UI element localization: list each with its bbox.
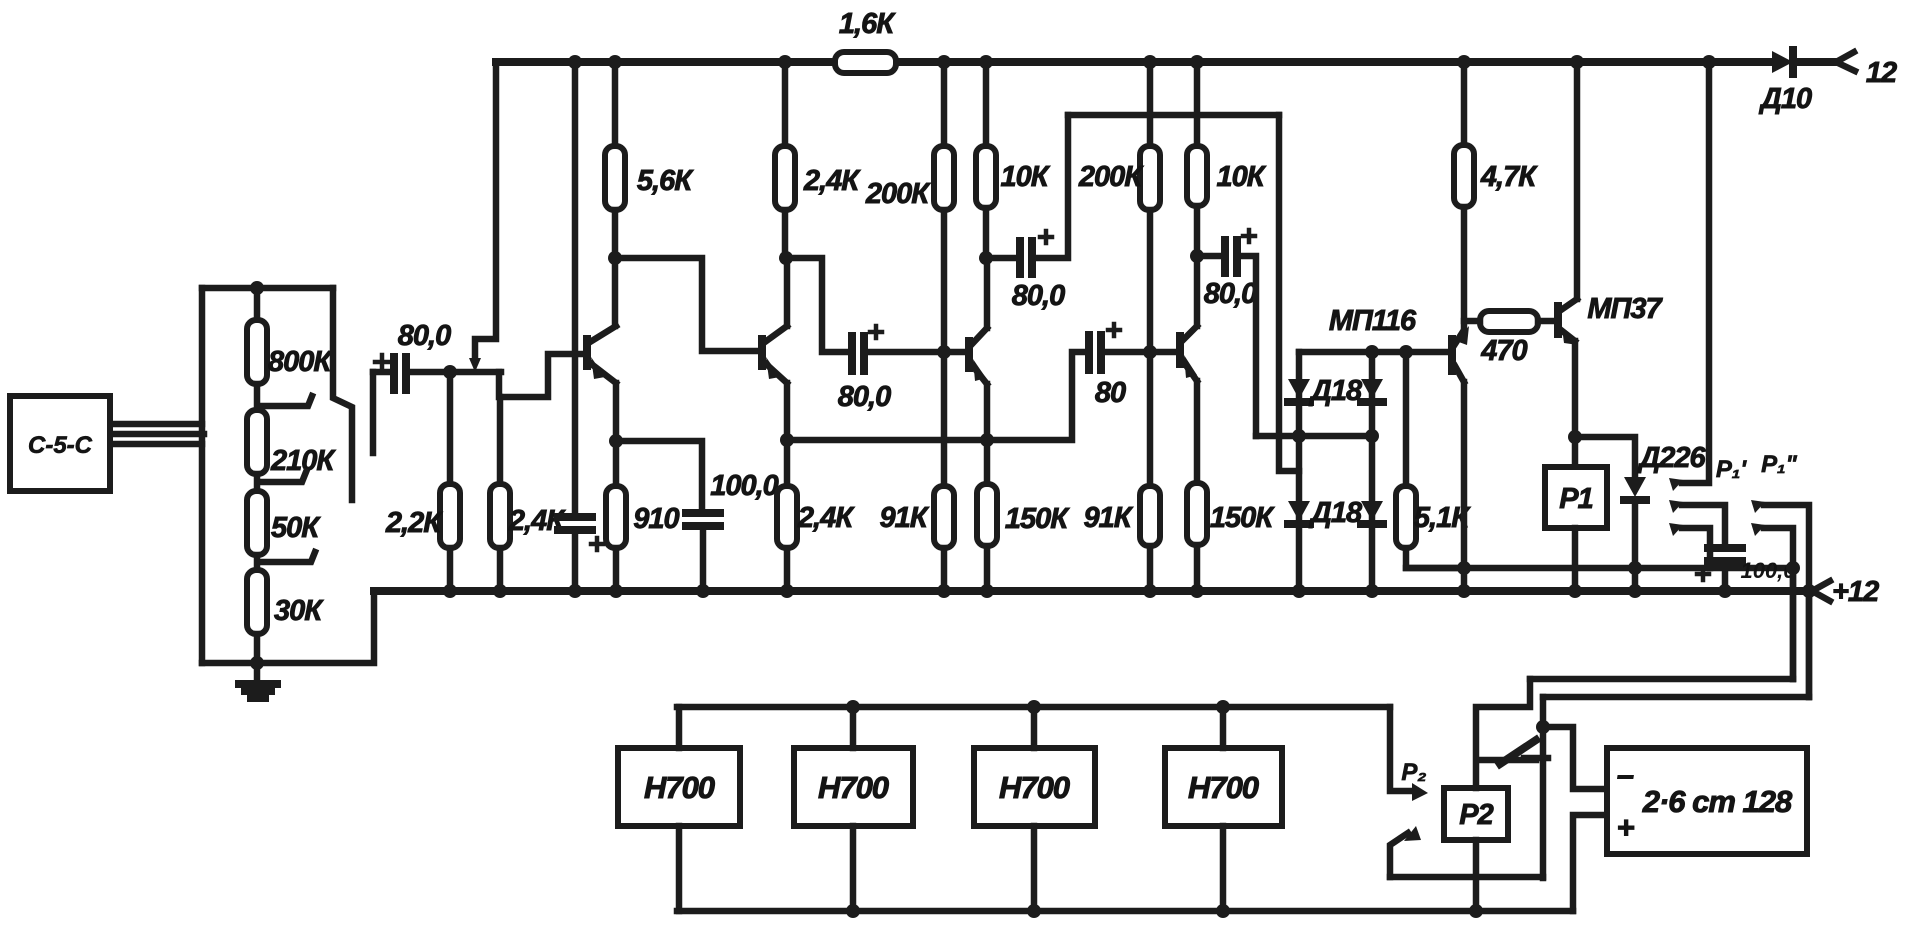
wire main +12 bottom bus (374, 587, 1812, 595)
svg-text:–: – (1617, 757, 1634, 792)
wire cap3 right to top link (1035, 115, 1068, 258)
wire contact Р1ʺ stub lower (1764, 528, 1793, 679)
wire armature column (1540, 697, 1547, 878)
wire bypass cap bottom lead (700, 530, 707, 591)
capacitor 80,0 T3 collector + (1040, 231, 1052, 243)
wire top link down right (1279, 115, 1299, 471)
node muting contact arrow (469, 358, 481, 372)
wire T1-T2 coupling (615, 258, 758, 351)
node 150К bus junction (980, 584, 994, 598)
node diode column 2 bus junction (1365, 584, 1379, 598)
diode Д18 lower-left (1288, 501, 1310, 524)
svg-text:12: 12 (1866, 57, 1897, 89)
node 200К rail junction (937, 55, 951, 69)
node cap 100,0 bus junction (1718, 584, 1732, 598)
node Д226 bus junction (1628, 584, 1642, 598)
svg-text:200К: 200К (1078, 161, 1144, 193)
node T5 emitter bus junction (1457, 584, 1471, 598)
svg-text:+12: +12 (1832, 576, 1879, 608)
node bypass bus junction (696, 584, 710, 598)
node contact arrow 5 (1751, 523, 1765, 536)
ground (239, 684, 277, 698)
wire T4 collector vertical (1194, 256, 1201, 326)
resistor 150К second (1187, 483, 1207, 545)
wire switch armature stub (1480, 757, 1536, 764)
wire tap stub 2 (262, 472, 306, 482)
wire input cable 3 lines (112, 424, 204, 444)
wire selector line from divider top (333, 288, 352, 500)
svg-text:МП116: МП116 (1329, 305, 1417, 337)
capacitor 80,0 input + (375, 355, 389, 369)
transistor T6 МП37 (1558, 299, 1578, 345)
svg-text:Р₁": Р₁" (1761, 451, 1797, 478)
resistor 91К (934, 486, 954, 548)
wire top supply rail (496, 58, 1836, 66)
resistor 10К first (976, 146, 996, 208)
wire emitter link line (787, 352, 1085, 440)
wire divider top (202, 285, 333, 292)
resistor 50К (247, 491, 267, 555)
wire T5 base line (1299, 349, 1446, 356)
resistor 2,4К emitter (777, 486, 797, 548)
node Р1 bus junction (1568, 584, 1582, 598)
diode Д226 (1624, 477, 1646, 500)
wire 91К bottom lead (941, 548, 948, 591)
battery box 2·6 ст 128 (1607, 748, 1807, 854)
wire chain link 3 (254, 555, 261, 570)
wire 200К top lead (941, 62, 948, 146)
wire lamp 3 leads (1031, 707, 1038, 911)
svg-text:Р1: Р1 (1559, 483, 1592, 515)
svg-text:2,2К: 2,2К (385, 507, 443, 539)
node 91К bus junction (937, 584, 951, 598)
wire 4,7К to T5 collector (1461, 207, 1468, 328)
wire divider chain top lead (254, 288, 261, 320)
wire cap4 right lead (1104, 349, 1174, 356)
capacitor 80,0 T3 collector (1020, 241, 1032, 274)
node right link bus junction (1802, 584, 1816, 598)
node 150К second bus junction (1190, 584, 1204, 598)
capacitor bias + (591, 538, 603, 550)
wire tap stub 1 (262, 396, 312, 406)
resistor 210К (247, 410, 267, 474)
diode Д18 lower-right (1361, 501, 1383, 524)
svg-text:910: 910 (633, 503, 679, 535)
wire tap stub 3 (262, 552, 315, 562)
node T4 collector junction (1190, 249, 1204, 263)
svg-text:Д10: Д10 (1758, 83, 1812, 115)
svg-text:2,4К: 2,4К (797, 502, 855, 534)
wire emitter to Д226 (1575, 437, 1635, 477)
node 2,4К rail junction (778, 55, 792, 69)
wire 5,1К top lead (1403, 352, 1410, 486)
node detector line junction left (1292, 429, 1306, 443)
node bias bus junction (568, 584, 582, 598)
svg-text:Д18: Д18 (1308, 497, 1363, 529)
node base line junction 2 (1399, 345, 1413, 359)
svg-text:150К: 150К (1005, 503, 1070, 535)
svg-text:Н700: Н700 (644, 770, 715, 805)
svg-text:91К: 91К (879, 502, 929, 534)
wire cap3 left lead (986, 255, 1017, 262)
svg-text:200К: 200К (865, 178, 931, 210)
wire top link line (1068, 112, 1279, 119)
resistor 910 (606, 486, 626, 548)
svg-text:Н700: Н700 (999, 770, 1070, 805)
node divider top junction (250, 281, 264, 295)
wire 5,1К bottom jog (1406, 548, 1464, 568)
resistor 200К (934, 146, 954, 210)
wire bias line from rail (572, 62, 579, 513)
wire contact stub 3 (1682, 528, 1710, 568)
relay box Р2 (1444, 788, 1508, 840)
wire T6 collector to rail (1574, 62, 1581, 299)
svg-text:Д226: Д226 (1636, 442, 1706, 474)
wire lower link 877 (1390, 874, 1543, 881)
wire diode column 1 (1296, 352, 1303, 591)
wire 200К second top lead (1147, 62, 1154, 146)
wire link line 697 (1543, 694, 1809, 701)
transistor T1 (587, 326, 616, 383)
wire T1 emitter vertical (613, 383, 620, 486)
node contact arrow 3 (1669, 523, 1683, 536)
capacitor 80,0 T2-T3 + (870, 326, 882, 338)
capacitor 80 + (1108, 324, 1120, 336)
lamp box Н700 no.4 (1165, 748, 1282, 826)
wire T6 emitter vertical (1572, 341, 1579, 467)
node 5,1К emitter junction (1457, 561, 1471, 575)
wire switch fixed tick (1524, 755, 1548, 762)
node diode column 1 bus junction (1292, 584, 1306, 598)
wire input left vertical (199, 288, 206, 663)
node 10К rail junction (979, 55, 993, 69)
wire 10К second top lead (1194, 62, 1201, 146)
capacitor 80,0 input (394, 357, 406, 390)
transistor T3 (969, 328, 987, 384)
wire lamp 4 leads (1220, 707, 1227, 911)
wire 2,4К collector load top lead (782, 62, 789, 146)
wire right link vertical 1793 (1790, 568, 1797, 679)
node lamp 4 bottom junction (1216, 904, 1230, 918)
transistor T2 (762, 326, 787, 383)
wire cap 100,0 bottom lead (1722, 561, 1729, 591)
capacitor 100,0 bypass (686, 513, 720, 526)
capacitor 100,0 output + (1697, 568, 1709, 580)
node T3 collector junction (979, 251, 993, 265)
wire cap1 left lead (373, 369, 391, 376)
wire cap1 right lead to node A (409, 369, 501, 376)
wire 200К to base node (941, 210, 948, 486)
node second bus junction (1786, 561, 1800, 575)
wire T3 emitter vertical (984, 384, 991, 484)
node +12 terminal arrow (1812, 581, 1830, 601)
svg-text:30К: 30К (274, 595, 324, 627)
svg-text:МП37: МП37 (1587, 293, 1663, 325)
diode Д18 upper-right (1361, 379, 1383, 402)
node 10К second rail junction (1190, 55, 1204, 69)
wire bias cap bottom lead (572, 534, 579, 591)
relay box Р1 (1545, 467, 1607, 528)
capacitor 80,0 T4 + (1243, 230, 1255, 242)
wire 91К second bottom lead (1147, 546, 1154, 591)
resistor 5,1К (1396, 486, 1416, 548)
wire Н700 bottom bus (677, 908, 1573, 915)
svg-text:10К: 10К (1000, 161, 1050, 193)
wire cap2 right lead (867, 349, 964, 356)
svg-text:Н700: Н700 (818, 770, 889, 805)
capacitor 80,0 T4 collector (1225, 240, 1237, 273)
node base line junction 1 (1365, 345, 1379, 359)
wire Д226 bottom lead (1632, 500, 1639, 591)
node 200К second rail junction (1143, 55, 1157, 69)
wire contact Р1ʺ stub upper (1764, 505, 1809, 697)
svg-text:100,0: 100,0 (710, 470, 778, 502)
resistor 10К second (1187, 146, 1207, 206)
wire T2 collector vertical (784, 258, 791, 326)
wire battery plus link (1573, 815, 1607, 911)
lamp box Н700 no.3 (974, 748, 1095, 826)
wire link line 679 (1530, 676, 1793, 683)
wire selector wiper dangling (370, 372, 377, 453)
wire right link vertical 1809 (1806, 591, 1813, 697)
resistor 91К second (1140, 486, 1160, 546)
wire cap5 right down link (1240, 256, 1256, 436)
resistor 470 (1480, 311, 1538, 332)
svg-text:10К: 10К (1216, 161, 1266, 193)
wire 10К second bottom lead (1194, 206, 1201, 256)
svg-text:+: + (1616, 810, 1634, 845)
resistor 1,6К rail (835, 52, 896, 73)
svg-text:2·6 ст 128: 2·6 ст 128 (1642, 784, 1793, 819)
resistor 200К second (1140, 146, 1160, 210)
node contact arrow 4 (1751, 500, 1765, 513)
svg-text:С-5-С: С-5-С (28, 432, 93, 459)
node 5,6К rail junction (608, 55, 622, 69)
wire ground stub (254, 663, 261, 682)
wire muting contact drop from rail (475, 62, 496, 360)
node 4,7К rail junction (1457, 55, 1471, 69)
wire node A down to 2,2К (447, 372, 454, 484)
wire 2,2К bottom lead (447, 548, 454, 591)
wire cap5 left lead (1197, 253, 1222, 260)
wire contact Р1 feed from rail (1682, 62, 1709, 483)
wire T5 emitter vertical (1461, 382, 1468, 591)
wire 200К second to base node (1147, 210, 1154, 486)
resistor 2,4К collector load (775, 146, 795, 210)
wire Р2 coil top to link (1476, 679, 1530, 788)
node T1 emitter junction (609, 434, 623, 448)
resistor 2,4К (490, 484, 510, 548)
node Р2 bottom junction (1469, 904, 1483, 918)
wire T4 emitter vertical (1194, 381, 1201, 483)
node contact arrow 1 (1669, 478, 1683, 491)
resistor 2,2К (440, 484, 460, 548)
svg-text:470: 470 (1480, 335, 1527, 367)
wire T3 collector vertical (984, 258, 991, 328)
diode Д18 upper-left (1288, 379, 1310, 402)
capacitor 80 T4 input (1089, 335, 1101, 370)
diode Д10 (1772, 50, 1793, 74)
wire Р2 coil bottom (1473, 840, 1480, 911)
svg-text:5,6К: 5,6К (637, 165, 694, 197)
wire 150К bottom lead (984, 546, 991, 591)
wire 10К bottom lead (983, 208, 990, 258)
wire Р1 bottom lead (1572, 528, 1579, 591)
svg-text:80: 80 (1095, 377, 1126, 409)
lamp box Н700 no.2 (794, 748, 913, 826)
node -12 terminal arrow (1836, 52, 1855, 71)
svg-text:Р2: Р2 (1459, 799, 1493, 831)
node T4 base junction (1143, 345, 1157, 359)
wire Н700 top bus (677, 704, 1390, 711)
wire battery minus link (1543, 727, 1607, 789)
node 2,4К emitter bus junction (780, 584, 794, 598)
svg-text:150К: 150К (1210, 502, 1275, 534)
node lamp 4 top junction (1216, 700, 1230, 714)
wire chain link 1 (254, 384, 261, 410)
wire 910 bottom lead (613, 548, 620, 591)
wire 2,4К bottom lead (497, 548, 504, 591)
node Р2 contact arrow upper (1412, 783, 1428, 801)
node bias rail junction (568, 55, 582, 69)
svg-text:2,4К: 2,4К (803, 165, 861, 197)
wire 5,6К bottom lead (612, 210, 619, 258)
node T3 base junction (937, 345, 951, 359)
wire T2 collector out jog (786, 258, 850, 352)
wire 470 left lead (1464, 318, 1480, 325)
svg-text:1,6К: 1,6К (839, 8, 896, 40)
wire 470 right lead (1538, 318, 1554, 325)
resistor 150К (977, 484, 997, 546)
wire Р2 contact feed upper (1390, 707, 1412, 791)
wire second bus (1406, 565, 1793, 572)
node lamp 2 bottom junction (846, 904, 860, 918)
capacitor 80,0 T2-T3 (852, 336, 864, 371)
transistor T5 МП116 (1452, 326, 1469, 382)
node lamp 2 top junction (846, 700, 860, 714)
svg-text:50К: 50К (271, 512, 321, 544)
svg-text:91К: 91К (1083, 502, 1133, 534)
svg-text:Н700: Н700 (1188, 770, 1259, 805)
node lamp 3 bottom junction (1027, 904, 1041, 918)
wire contact stub 2 (1682, 505, 1725, 545)
svg-text:800К: 800К (268, 346, 333, 378)
node detector line junction right (1365, 429, 1379, 443)
node A junction (443, 365, 457, 379)
lamp box Н700 no.1 (618, 748, 740, 826)
wire lamp 2 leads (850, 707, 857, 911)
svg-text:80,0: 80,0 (1204, 278, 1257, 310)
svg-text:80,0: 80,0 (398, 320, 451, 352)
node T3 emitter junction (980, 433, 994, 447)
node T1 collector junction (608, 251, 622, 265)
wire chain bottom lead (254, 634, 261, 663)
node contact Р1 rail junction (1702, 55, 1716, 69)
capacitor bias electrolytic (558, 517, 592, 530)
capacitor 100,0 output (1708, 548, 1742, 561)
wire 5,6К top lead (612, 62, 619, 146)
node T6 emitter junction (1568, 430, 1582, 444)
wire 2,4К top lead (497, 397, 504, 484)
node 2,4К bus junction (493, 584, 507, 598)
wire detector top line (1256, 433, 1372, 440)
wire switch armature lever (1500, 740, 1536, 764)
wire Р2 contact feed lower (1390, 833, 1408, 877)
input box С-5-С (10, 396, 110, 491)
node T6 collector rail junction (1570, 55, 1584, 69)
svg-text:4,7К: 4,7К (1480, 161, 1538, 193)
node chain bottom junction (250, 656, 264, 670)
wire left ground return (202, 591, 374, 663)
node 910 bus junction (609, 584, 623, 598)
resistor 800К (247, 320, 267, 384)
wire T2 emitter vertical (784, 383, 791, 486)
resistor 30К (247, 570, 267, 634)
wire 4,7К top lead (1461, 62, 1468, 145)
wire 2,4К emitter bottom lead (784, 548, 791, 591)
wire diode column 2 (1369, 352, 1376, 591)
wire 150К second bottom lead (1194, 545, 1201, 591)
svg-text:Д18: Д18 (1308, 375, 1363, 407)
svg-text:Р₂: Р₂ (1401, 759, 1426, 786)
svg-text:Р₁': Р₁' (1716, 456, 1747, 483)
wire lamp 1 leads (676, 707, 683, 911)
node armature junction (1536, 720, 1550, 734)
node 2,2К bus junction (443, 584, 457, 598)
wire 2,4К bottom lead (782, 210, 789, 258)
node Д226 bus2 junction (1628, 561, 1642, 575)
node 91К second bus junction (1143, 584, 1157, 598)
wire base feed jog (499, 354, 584, 397)
wire chain link 2 (254, 474, 261, 491)
node contact arrow 2 (1669, 500, 1683, 513)
svg-text:80,0: 80,0 (838, 381, 891, 413)
wire 10К first top lead (983, 62, 990, 146)
node T2 collector junction (779, 251, 793, 265)
resistor 5,6К (605, 146, 625, 210)
svg-text:80,0: 80,0 (1012, 280, 1065, 312)
transistor T4 (1180, 326, 1197, 381)
wire T1 collector vertical (612, 258, 619, 326)
node T2 emitter junction (780, 433, 794, 447)
resistor 4,7К (1454, 145, 1474, 207)
node lamp 3 top junction (1027, 700, 1041, 714)
wire emitter bypass link (616, 441, 702, 509)
node Р2 contact arrow lower (1404, 826, 1421, 841)
